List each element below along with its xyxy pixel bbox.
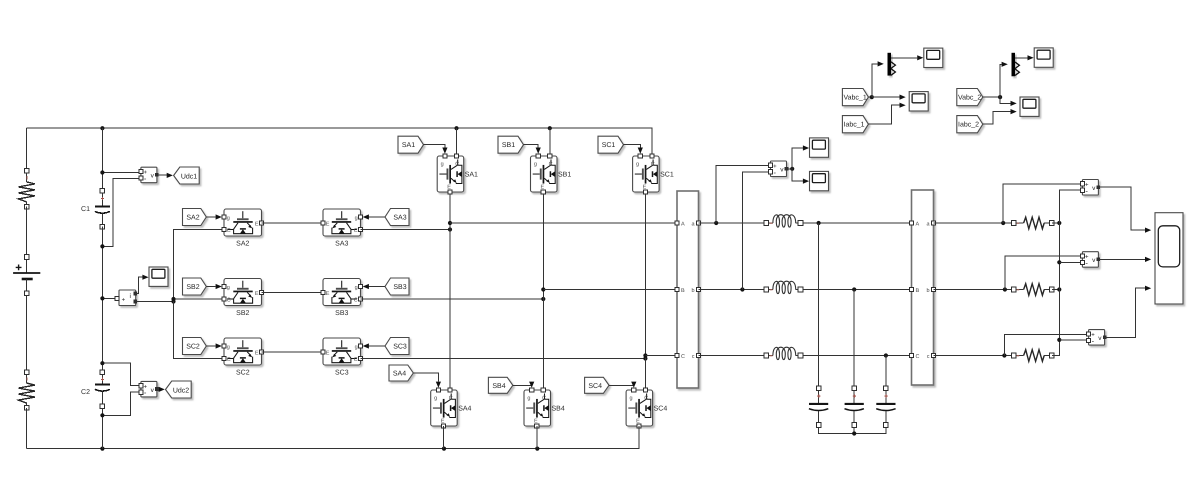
wire left rail mid1 [26,207,28,255]
svg-text:E: E [541,185,545,191]
wire mid rail vertical [174,230,225,359]
svg-text:g: g [227,285,230,291]
goto tag Udc1 [174,167,200,184]
svg-text:+: + [122,298,126,304]
wire phase a to load [934,222,1012,224]
node v1 plus tap [1001,221,1005,225]
svg-text:Iabc_1: Iabc_1 [844,121,865,129]
wire SB4 emitter drop [536,426,538,449]
wire to demux D2 [1000,64,1001,97]
from tag SC2 [183,338,207,355]
wire D1 to scope S1 [891,57,917,59]
wire SA1 collector drop [456,128,458,154]
svg-text:SB4: SB4 [552,406,565,413]
capacitor Cc [876,386,895,427]
svg-text:A: A [681,221,685,227]
wire U2 to Udc2 [157,388,159,390]
scope Vload [1155,213,1183,304]
svg-text:SA3: SA3 [335,241,348,248]
svg-text:C: C [681,354,685,360]
from tag SB4 [488,377,512,393]
svg-text:E: E [255,350,259,356]
resistor R2 [18,370,35,410]
wire left rail top [26,128,28,168]
wire Rb to star rail [1052,289,1060,291]
node phase a tap [714,221,718,225]
svg-text:E: E [643,185,647,191]
svg-text:E: E [255,221,259,227]
wire tap b to Vab minus [742,172,768,290]
svg-text:g: g [527,396,530,402]
svg-text:g: g [355,215,358,221]
wire SA4 emitter drop [443,426,445,449]
wire phase B to filter [543,289,675,291]
node midpoint rail [100,296,104,300]
wire Vab output [787,168,793,170]
svg-text:g: g [227,344,230,350]
demux D2 [1012,53,1020,77]
node top bus / SB1 collector junction [548,126,552,130]
svg-text:E: E [326,291,330,297]
wire cap b drop [853,290,855,386]
scope V2 [810,171,829,190]
wire left rail mid2 [26,295,28,369]
wire SB3 collector to phase B [361,290,544,300]
svg-text:SB1: SB1 [502,142,515,149]
wire phase C to filter [645,355,674,357]
svg-text:B: B [681,288,685,294]
inductor La [764,215,803,227]
svg-text:SB3: SB3 [393,284,406,291]
wire to scope V1 [792,148,803,169]
wire v3 minus stub [1059,339,1086,341]
wire v2 to scope [1098,258,1145,260]
node star rail a [1057,221,1061,225]
svg-text:C: C [227,228,231,234]
svg-text:C1: C1 [81,206,90,213]
svg-text:g: g [355,344,358,350]
svg-text:B: B [916,288,920,294]
resistor R1 [18,169,35,209]
node top bus / C1 rail junction [100,126,104,130]
node C2 bracket top [100,361,104,365]
goto tag Udc2 [166,381,192,398]
transistor SB3 [321,279,363,318]
wire Vabc_1 out [868,96,871,98]
voltage measurement v3 [1087,330,1107,346]
svg-text:g: g [630,396,633,402]
from tag SA2 [183,209,207,226]
wire top DC bus [27,128,652,154]
wire tap to v1 plus [1003,184,1080,223]
DC source E1 [13,255,40,296]
wire Vabc_2 to scope S4 [1000,97,1010,103]
wire phase C vertical [644,192,646,390]
wire SC2 gate [206,345,215,347]
svg-text:SC3: SC3 [393,344,407,351]
svg-text:b: b [691,288,694,294]
node cap b tap [852,287,856,291]
wire Ra to star rail [1052,222,1060,224]
scope S1 [924,48,943,67]
three-phase VI measurement B1 [675,191,701,388]
svg-text:C: C [449,396,453,402]
wire SA3 gate [367,216,385,218]
svg-text:SC1: SC1 [660,172,674,179]
transistor SA1 [437,154,478,194]
svg-text:c: c [927,354,930,360]
wire cap c drop [885,356,887,386]
from tag Vabc_2 [957,89,983,106]
svg-text:Vabc_1: Vabc_1 [844,94,867,102]
demux D1 [888,53,896,76]
svg-text:E: E [441,419,445,425]
wire C2 rail bottom [101,409,103,449]
svg-text:SA2: SA2 [236,241,249,248]
svg-text:SB2: SB2 [236,310,249,317]
wire phase c to inductor [699,355,764,357]
wire phase A to filter [450,222,675,224]
wire SA1 gate [424,145,445,148]
wire phase A vertical [449,192,451,390]
node phase B bend [541,297,545,301]
wire U1 to Udc1 [157,174,167,176]
node v3 plus tap [1002,353,1006,357]
from tag SA1 [398,136,424,153]
svg-text:E: E [326,221,330,227]
svg-text:E: E [636,419,640,425]
svg-text:i: i [130,293,131,300]
wire SB4 gate [513,382,532,386]
wire phase c to load [934,355,1012,357]
wire SB1 gate [524,145,539,148]
wire Udc1 minus tap [102,179,140,247]
svg-text:SC2: SC2 [186,344,200,351]
transistor SC2 [222,338,264,377]
from tag Iabc_2 [957,116,983,133]
node Vab output split [790,167,794,171]
transistor SA2 [222,209,264,248]
wire SB1 collector drop [549,128,551,154]
wire SB3 gate [367,286,385,288]
wire SB2 gate [206,286,215,288]
inductor Lb [764,281,803,293]
wire inductor c to B2 [803,355,910,357]
node Vabc_1 split [870,95,874,99]
wire SC3 collector to phase C [361,356,646,359]
svg-text:g: g [355,285,358,291]
svg-text:SC2: SC2 [236,370,250,377]
wire SC3 gate [367,345,385,347]
svg-text:SB2: SB2 [186,284,199,291]
svg-text:C: C [644,396,648,402]
node phase A bend [448,227,452,231]
from tag SB2 [183,278,207,295]
node star rail v2 minus [1057,260,1061,264]
node C2 bracket bottom [100,413,104,417]
wire SB2-SB3 emitters [262,292,324,294]
wire SA4 gate [413,373,438,382]
wire C2 bracket top [102,363,138,386]
current measurement I1 [115,290,137,306]
wire tap a to Vab plus [716,165,768,223]
wire phase b to inductor [699,289,764,291]
svg-text:SA1: SA1 [402,142,415,149]
wire cap b neutral drop [853,427,855,433]
from tag Vabc_1 [842,89,868,106]
capacitor C1 [95,189,110,229]
svg-text:E: E [534,419,538,425]
svg-text:c: c [692,354,695,360]
node phase C bend [643,356,647,360]
scope S4 [1020,97,1039,116]
svg-text:SB3: SB3 [335,310,348,317]
node bottom bus / SB4 emitter junction [535,447,539,451]
wire Iabc_2 to scope S4 [983,112,1011,125]
wire to scope V2 [792,169,803,181]
voltage measurement v1 [1080,180,1100,196]
node top bus / SA1 collector junction [454,126,458,130]
scope Scope5 [149,267,168,286]
svg-text:SA2: SA2 [186,215,199,222]
svg-text:b: b [926,288,929,294]
resistor Rc [1011,350,1054,362]
svg-text:A: A [916,221,920,227]
wire to demux D1 [872,64,878,97]
svg-text:C: C [542,396,546,402]
node star rail b [1057,287,1061,291]
from tag SC4 [585,377,609,393]
node bottom bus / C2 rail junction [100,447,104,451]
wire phase a to inductor [699,222,764,224]
svg-text:g: g [227,215,230,221]
capacitor C2 [95,370,110,409]
wire star rail [1052,190,1083,355]
svg-text:Udc1: Udc1 [181,172,197,180]
voltage measurement U2 [139,381,159,397]
wire cap neutral [819,427,886,433]
node phase A tap [448,221,452,225]
from tag SC1 [598,136,624,153]
node Udc1 plus tap [100,170,104,174]
wire mid rail to SB2 collector [174,298,225,300]
wire Udc1 plus tap [102,172,138,174]
from tag Iabc_1 [842,116,868,133]
svg-text:C: C [455,162,459,168]
svg-text:E: E [255,291,259,297]
transistor SC3 [321,338,363,377]
capacitor Ca [809,386,828,427]
transistor SB2 [222,279,264,318]
wire SA3 collector to phase A [361,223,451,230]
svg-text:E: E [326,350,330,356]
svg-text:Vabc_2: Vabc_2 [958,94,981,102]
svg-text:C: C [354,228,358,234]
wire v3 to scope [1105,288,1145,337]
svg-text:SB1: SB1 [558,172,571,179]
transistor SC4 [626,388,667,428]
svg-text:SC4: SC4 [654,406,668,413]
voltage measurement U1 [139,167,159,183]
svg-text:SB4: SB4 [492,383,505,390]
node cap c tap [884,353,888,357]
node neutral [852,431,856,435]
wire SC2-SC3 emitters [262,351,324,353]
svg-text:C: C [651,162,655,168]
svg-text:g: g [441,162,444,168]
node phase B tap [541,287,545,291]
wire tap to v3 plus [1004,335,1086,356]
transistor SC1 [633,154,674,194]
transistor SA4 [431,388,472,428]
wire inductor b to B2 [803,289,910,291]
three-phase VI measurement B2 [909,190,935,385]
wire midpoint to current measurement [102,297,116,299]
node mid rail / SB2 [171,297,175,301]
svg-text:SA3: SA3 [393,215,406,222]
wire v2 minus stub [1059,261,1080,263]
wire SA2 gate [206,216,215,218]
svg-text:C: C [549,162,553,168]
from tag SA3 [385,209,409,226]
svg-text:E: E [447,185,451,191]
svg-text:C: C [227,297,231,303]
node phase b tap [740,287,744,291]
wire Vabc_2 out [983,96,1000,98]
wire inductor a to B2 [803,222,910,224]
scope S3 [1034,48,1053,67]
svg-text:C: C [354,297,358,303]
node star rail v3 minus [1057,338,1061,342]
svg-text:Iabc_2: Iabc_2 [958,121,979,129]
svg-text:C2: C2 [81,389,90,396]
wire SC1 gate [624,145,641,148]
node bottom bus / SA4 emitter junction [442,447,446,451]
svg-text:g: g [434,396,437,402]
scope V1 [810,138,829,157]
wire SA2-SA3 emitters [262,222,324,224]
svg-text:Udc2: Udc2 [173,386,189,394]
wire C1 rail top [101,128,103,188]
resistor Ra [1011,217,1054,229]
wire C2 bracket bottom [102,392,138,415]
svg-text:g: g [534,162,537,168]
node phase C tap [643,353,647,357]
from tag SB3 [385,278,409,295]
transistor SB1 [531,154,572,194]
inductor Lc [764,347,803,359]
wire phase b to load [934,289,1012,291]
svg-text:C: C [916,354,920,360]
wire left rail bottom [26,408,28,449]
wire bottom DC bus [27,427,639,448]
wire I1 signal to scope [136,277,145,293]
wire C1 rail mid [101,227,103,370]
wire Iabc_1 to scope S2 [868,105,899,124]
wire D2 to scope S3 [1015,57,1028,59]
from tag SA4 [389,365,413,381]
wire phase B vertical [542,192,544,390]
node cap a tap [817,221,821,225]
capacitor Cb [845,386,864,427]
svg-text:SA1: SA1 [465,172,478,179]
wire Vabc_1 to scope S2 [872,96,900,98]
node mid rail / I1 [171,299,175,303]
svg-text:C: C [354,357,358,363]
scope S2 [909,92,928,111]
from tag SB1 [498,136,524,153]
svg-text:SC1: SC1 [602,142,616,149]
transistor SA3 [321,209,363,248]
wire tap to v2 plus [1005,256,1080,290]
wire v1 to scope [1098,187,1145,230]
resistor Rb [1011,284,1054,296]
wire SC4 emitter drop [638,426,640,448]
voltage measurement v2 [1080,252,1100,268]
svg-text:SA4: SA4 [393,371,406,378]
node Udc1 minus tap [100,244,104,248]
svg-text:SA4: SA4 [458,406,471,413]
wire cap a drop [818,223,820,386]
voltage measurement Vab [768,161,788,177]
svg-text:g: g [636,162,639,168]
node v2 plus tap [1003,287,1007,291]
svg-text:SC4: SC4 [588,383,602,390]
from tag SC3 [385,338,409,355]
node Vabc_2 split [998,95,1002,99]
transistor SB4 [524,388,565,428]
svg-text:C: C [227,357,231,363]
svg-text:SC3: SC3 [335,370,349,377]
wire SC4 gate [609,382,634,386]
wire I1 minus to mid rail [136,301,174,303]
